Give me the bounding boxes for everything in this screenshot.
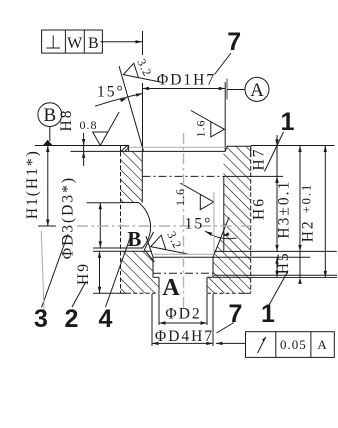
H6 dim bbox=[276, 176, 278, 251]
svg-text:H7: H7 bbox=[251, 148, 268, 171]
datum B circle bbox=[38, 103, 62, 127]
D4 ext lines bbox=[151, 294, 153, 346]
1.6 symbol top bbox=[191, 111, 224, 137]
hatch left bottom flange bbox=[121, 251, 159, 293]
H2 dim bbox=[324, 146, 326, 278]
perpendicularity symbol bbox=[47, 47, 61, 49]
hatch right wall bbox=[207, 146, 251, 293]
centerlines bbox=[77, 133, 253, 308]
svg-text:ΦD2: ΦD2 bbox=[165, 306, 201, 323]
shoulder left line bbox=[93, 250, 152, 252]
svg-text:7: 7 bbox=[229, 300, 243, 328]
svg-text:H3±0.1: H3±0.1 bbox=[276, 180, 293, 239]
D2 ext lines bbox=[158, 294, 160, 325]
leader 1 bottom bbox=[269, 271, 288, 305]
svg-text:15°: 15° bbox=[185, 216, 213, 233]
taper left slant bbox=[146, 236, 153, 257]
H5 dim bbox=[276, 257, 278, 277]
D4 dim line bbox=[152, 342, 213, 344]
svg-text:B: B bbox=[43, 105, 56, 126]
svg-text:A: A bbox=[317, 337, 327, 352]
svg-text:2: 2 bbox=[65, 305, 79, 333]
recess top face bbox=[153, 256, 310, 258]
gray recess top variant bbox=[153, 253, 214, 255]
H7 depth dashdot line bbox=[143, 175, 226, 177]
leader 7 top bbox=[215, 53, 232, 75]
cavity left shoulder line bbox=[121, 202, 139, 204]
svg-text:1.6: 1.6 bbox=[173, 188, 187, 206]
cavity right wall bbox=[223, 176, 225, 251]
3.2 symbol top bbox=[121, 57, 161, 92]
svg-text:4: 4 bbox=[99, 305, 113, 333]
A-zone right ext line bbox=[214, 274, 337, 276]
svg-text:ΦD3(D3*): ΦD3(D3*) bbox=[60, 176, 77, 259]
top face across bore bbox=[129, 150, 226, 152]
right outer edge solid top corner bbox=[250, 146, 252, 157]
top face ext left (datum B / H8 / H1) bbox=[35, 145, 121, 147]
svg-text:H9: H9 bbox=[75, 262, 92, 285]
D3 bottom ext line bbox=[93, 247, 143, 249]
runout frame leader bbox=[216, 342, 246, 344]
gray cavity wall variant bbox=[213, 192, 215, 254]
hole D2 right wall bbox=[206, 277, 208, 293]
svg-text:ΦD4H7: ΦD4H7 bbox=[155, 328, 214, 345]
3.2 surface tick at B bbox=[144, 232, 154, 262]
15 deg slant top bbox=[119, 66, 144, 151]
D1 dim line bbox=[143, 88, 226, 90]
svg-text:3: 3 bbox=[34, 305, 48, 333]
bottom face right solid bbox=[240, 292, 251, 294]
frame tick top bbox=[142, 31, 144, 55]
hatch left upper wall bbox=[121, 146, 143, 203]
svg-text:A: A bbox=[250, 80, 264, 101]
runout frame bbox=[246, 332, 335, 358]
cavity left arc bbox=[139, 203, 151, 249]
leader 1 top bbox=[265, 132, 284, 172]
taper right slant bbox=[213, 217, 229, 257]
svg-text:W: W bbox=[67, 35, 83, 52]
gray variant lines bbox=[41, 147, 227, 316]
svg-text:0.8: 0.8 bbox=[80, 118, 98, 132]
1.6 symbol mid bbox=[180, 183, 213, 209]
D2 dim line bbox=[159, 322, 207, 324]
left outer edge (dash-dot) bbox=[120, 146, 122, 294]
svg-text:A: A bbox=[162, 275, 180, 301]
H3 dim bbox=[299, 146, 301, 278]
15 deg arc top bbox=[95, 94, 143, 107]
svg-text:1.6: 1.6 bbox=[194, 120, 208, 138]
bottom face right dashed bbox=[207, 292, 240, 294]
horizontal centerline bbox=[77, 225, 253, 227]
svg-text:H8: H8 bbox=[58, 109, 75, 132]
0.8 symbol bbox=[93, 112, 119, 145]
top face ext right bbox=[251, 145, 335, 147]
leader 2 bbox=[72, 282, 86, 308]
A zone dashdot line bbox=[153, 272, 213, 274]
15 deg arc mid bbox=[205, 231, 237, 239]
svg-text:7: 7 bbox=[227, 28, 241, 56]
svg-text:0.05: 0.05 bbox=[280, 337, 307, 352]
bottom face left solid bbox=[93, 292, 127, 294]
rim sliver hatch strokes bbox=[121, 146, 126, 151]
svg-text:15°: 15° bbox=[97, 84, 125, 101]
gray leader 3 bbox=[41, 231, 44, 316]
svg-text:H5: H5 bbox=[275, 251, 292, 274]
svg-text:H6: H6 bbox=[251, 197, 268, 220]
H9 dim bbox=[99, 251, 101, 293]
svg-text:ΦD1H7: ΦD1H7 bbox=[157, 72, 216, 89]
svg-text:1: 1 bbox=[281, 108, 295, 136]
D3 top ext bbox=[87, 202, 120, 204]
part outline: right top face bbox=[227, 145, 251, 147]
leader 7 bottom bbox=[217, 323, 235, 334]
step right ext to dims bbox=[207, 276, 337, 278]
bottom face left dashed bbox=[127, 292, 159, 294]
bore mouth chamfer right bbox=[225, 146, 227, 151]
cavity left wall edge bbox=[141, 151, 143, 202]
H7 dim bbox=[276, 135, 278, 186]
H8 dim bbox=[83, 133, 85, 166]
D3 dim bbox=[99, 203, 101, 248]
leader 3 bbox=[42, 234, 69, 308]
svg-text:B: B bbox=[127, 227, 141, 251]
gray top face variant bbox=[130, 146, 227, 148]
svg-text:H1(H1*): H1(H1*) bbox=[24, 149, 41, 219]
left outer edge solid top corner bbox=[120, 146, 122, 157]
vertical centerline bbox=[183, 133, 185, 308]
H7 ext right bbox=[225, 175, 283, 177]
part outline: left rim top bbox=[121, 146, 129, 152]
3.2 symbol at B bbox=[148, 229, 188, 264]
frame leader top bbox=[100, 41, 142, 43]
bore D1 left wall bbox=[142, 83, 144, 151]
right outer edge (dash-dot) bbox=[250, 146, 252, 293]
shoulder ext right bbox=[214, 250, 337, 252]
H1 dim bbox=[47, 146, 49, 227]
runout symbol bbox=[258, 337, 266, 353]
face ext left for H8 bbox=[70, 150, 128, 152]
perpendicularity frame bbox=[42, 30, 103, 53]
svg-text:B: B bbox=[88, 35, 99, 52]
step left bbox=[153, 276, 159, 278]
bore D1 right wall bbox=[224, 82, 226, 151]
svg-text:1: 1 bbox=[261, 300, 275, 328]
recess left wall bbox=[152, 257, 154, 277]
recess right wall bbox=[212, 257, 214, 277]
leader 4 bbox=[106, 238, 131, 307]
hole D2 left wall bbox=[158, 277, 160, 293]
datum A circle bbox=[245, 77, 269, 101]
